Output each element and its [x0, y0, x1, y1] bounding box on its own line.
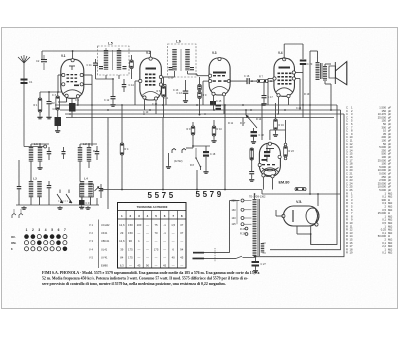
wire V2 right pin down: [162, 84, 166, 86]
wire vertical x=262 to EM80: [261, 105, 263, 140]
transformer core lines: [257, 199, 259, 256]
wire V5 right vertical: [317, 194, 319, 206]
coil L5 primary: [104, 49, 109, 52]
wire mains bottom with switch: [204, 257, 236, 259]
tube V3 UBC41: [209, 51, 231, 106]
wire AVC long y=189.5: [100, 189, 262, 191]
switch S2 (tone): [196, 158, 200, 166]
wire V1 pins down: [66, 98, 68, 103]
resistor R1: [38, 98, 42, 112]
capacitor C16: [247, 78, 248, 84]
capacitor C2: [41, 59, 47, 60]
wire V2 plate to L6: [162, 76, 174, 78]
transformer secondary heater: [261, 242, 265, 245]
capacitor C9 trimmer: [99, 188, 104, 189]
trimmer C14 near V2: [123, 79, 125, 84]
capacitor C3 electrolytic: [55, 117, 62, 126]
ground R10: [213, 139, 215, 140]
coil L6 primary: [172, 48, 177, 51]
oscillator box around L4: [80, 184, 94, 197]
wire vertical x=163: [162, 118, 164, 190]
resistor R4: [120, 143, 124, 155]
wire bus AVC y=105: [55, 104, 337, 106]
coil L6 secondary: [185, 48, 190, 51]
ground left bank 1: [23, 206, 25, 207]
wire right bracket 3: [256, 114, 345, 257]
wire right bracket 2: [270, 110, 341, 250]
ground C17: [263, 102, 265, 103]
capacitor C4: [47, 101, 52, 102]
wire vertical x=243: [242, 118, 244, 127]
wire V1 bottom pins: [66, 97, 68, 102]
capacitor C11 left of L5: [93, 63, 98, 64]
wire speaker to transformer: [324, 64, 326, 66]
capacitor C9 electrolytic: [79, 200, 85, 205]
ground left bank 2: [59, 206, 61, 207]
band switch arrow at L4: [95, 187, 100, 192]
tube V1 UCH42: [61, 54, 84, 98]
output transformer core: [320, 63, 322, 79]
wire vertical x=108: [107, 118, 109, 210]
speaker coil frame: [329, 66, 336, 78]
wire vertical x=303 lower: [302, 105, 304, 118]
capacitor at V3 cathode: [210, 101, 216, 106]
parts list designators and values: [346, 106, 392, 255]
resistor R24: [295, 188, 306, 191]
wire vertical x=225: [224, 105, 226, 190]
wire L3/L4 bottoms: [30, 197, 32, 205]
wire V1 left pin to R2: [58, 74, 62, 76]
resistor R9 stack: [198, 92, 202, 99]
trimmer caps in L5: [99, 66, 103, 67]
wire V4 left pin down: [268, 78, 273, 80]
voltage table TENSIONE AI PIEDINI: [118, 203, 187, 269]
ground C27: [255, 269, 257, 270]
resistor R2: [56, 96, 60, 110]
coil L1 secondary: [38, 146, 43, 149]
ground C4: [48, 116, 50, 117]
phono jacks F2 M2: [172, 149, 176, 154]
wire EM80 top to bus: [269, 130, 271, 140]
band switch legend: [11, 228, 67, 251]
ground C13: [185, 99, 187, 100]
wire V2 bottom pins: [144, 99, 146, 110]
wire V1 right pins to x=92: [83, 74, 92, 76]
wire V5 bottom: [297, 233, 311, 235]
tube EM80 magic eye: [258, 142, 289, 184]
tube V2 UF41: [139, 51, 163, 100]
wire vertical x=331: [330, 84, 332, 110]
wire y=194 right: [262, 193, 340, 195]
wire gang drops: [59, 190, 61, 194]
transformer primary taps: [241, 199, 244, 202]
wire V4 plate to top: [283, 44, 285, 59]
capacitor C6b mid: [62, 151, 66, 152]
aerial terminal hooks: [12, 214, 16, 219]
resistor R6 on x=163: [162, 86, 166, 97]
wire V2 left pin down: [135, 80, 139, 82]
tuning gang CV1: [57, 194, 63, 203]
ground C3: [57, 129, 59, 130]
coil L3: [29, 180, 34, 183]
wire C2 drop: [41, 51, 43, 59]
wire R22 branch: [251, 148, 253, 171]
tube V5 UY41: [282, 200, 319, 226]
capacitor C17: [262, 95, 267, 96]
junction dots on buses: [91, 104, 93, 106]
ground C9: [81, 206, 83, 207]
terminal ring L1 top: [44, 145, 47, 148]
resistor R16: [274, 119, 278, 130]
wire C17 drop: [263, 81, 265, 95]
IF transformer L5 box: [98, 42, 130, 76]
capacitor C27: [252, 261, 260, 263]
wire vertical x=92: [91, 95, 93, 146]
wire L6 secondary to V3 grid: [187, 71, 189, 74]
wire right bracket 1: [311, 105, 337, 244]
capacitor C19: [264, 151, 270, 153]
junction dot C27: [255, 256, 257, 258]
wire transformer top: [310, 50, 318, 52]
ground C22: [251, 178, 253, 179]
wire EM80 bottom stubs: [262, 177, 264, 190]
wire jack left to ground: [168, 153, 170, 165]
ground C12: [112, 103, 114, 104]
capacitor C20: [300, 60, 307, 62]
wire V3 bottom pins: [213, 95, 215, 110]
coil L4: [80, 180, 85, 183]
tube list table: [89, 220, 110, 269]
capacitor C18: [203, 151, 209, 153]
ground left bank 3: [87, 206, 89, 207]
wire bus screen y=110: [60, 109, 341, 111]
wire taps vertical: [236, 201, 238, 225]
ground C18: [205, 170, 207, 171]
trimmer C6: [17, 186, 22, 187]
wire vertical x=310 long: [309, 58, 311, 194]
potentiometer R17 diagonal: [246, 115, 257, 128]
capacitor C1 (antenna series): [21, 79, 28, 81]
capacitor C13: [183, 91, 189, 92]
capacitor C5 electrolytic: [69, 103, 76, 112]
wire jack bus: [186, 147, 193, 149]
wire vertical x=197 volume: [196, 170, 198, 190]
ground R1: [39, 116, 41, 117]
coil L2 secondary: [87, 146, 92, 149]
wire V1 top cap: [72, 51, 74, 59]
IF transformer L6 box: [168, 40, 197, 78]
wire V4 bottom pins: [278, 97, 280, 114]
capacitor C5b: [47, 151, 52, 152]
wire antenna to L1: [23, 145, 25, 148]
capacitor C7 (padder): [47, 185, 52, 186]
resistor R10: [212, 126, 216, 136]
wire bus heater y=117.5: [66, 117, 334, 119]
wire R1 C4 top row: [40, 91, 62, 93]
mains plug bars: [193, 252, 204, 254]
ground L1: [39, 166, 41, 167]
wire V3 to V4 coupling: [229, 80, 247, 82]
wire V2 top cap: [150, 51, 152, 57]
ground jack: [168, 165, 170, 166]
capacitor C22: [249, 171, 254, 172]
antenna: [23, 63, 25, 146]
capacitor C15: [216, 105, 222, 107]
output transformer T2 primary: [316, 61, 320, 64]
wire bus B+ y=114: [65, 113, 344, 115]
resistor R9: [191, 126, 195, 135]
capacitor C8: [95, 151, 100, 152]
wire under L5: [96, 78, 114, 80]
tube V4 UL41: [273, 51, 296, 98]
resistor R22: [250, 148, 254, 160]
wire L bank mids: [30, 161, 32, 181]
resistor R8 stack: [198, 85, 202, 91]
ground C18 mid: [253, 140, 255, 141]
transformer top wire: [254, 194, 256, 199]
coil L1 primary: [29, 146, 34, 149]
wire top grid bus y=51: [42, 50, 151, 52]
resistor R5 right of L5: [130, 60, 134, 69]
wire bottom common y=205: [16, 204, 99, 206]
coil L5 secondary: [117, 49, 122, 52]
wire L1/L2 tops: [30, 144, 32, 147]
resistor R25: [245, 227, 248, 230]
trimmer caps in L6: [169, 67, 173, 68]
capacitor C18 mid: [253, 128, 255, 131]
wire mains top: [204, 252, 230, 254]
output transformer secondary: [323, 65, 327, 68]
resistor R23: [284, 146, 288, 157]
caption text: [42, 271, 259, 286]
mains switch dashed link: [214, 248, 216, 262]
wire V4 right pins: [295, 78, 300, 80]
trimmer C12 under L5: [112, 79, 114, 96]
resistor R7 (horizontal): [257, 79, 268, 82]
speaker LS1: [329, 62, 347, 85]
transformer T1 winding: [253, 198, 257, 201]
wire C20 down: [302, 65, 304, 105]
wire V5 left lead: [276, 215, 283, 217]
coil L2 primary: [78, 146, 83, 149]
wire transformer bottom: [254, 255, 256, 258]
ground R16: [275, 133, 277, 134]
wire V3 left pin down: [203, 80, 209, 82]
